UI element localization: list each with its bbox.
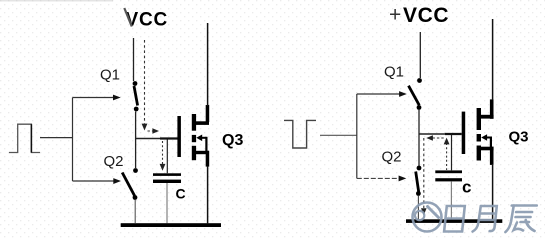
svg-text:Q1: Q1 (384, 64, 404, 81)
svg-text:VCC: VCC (126, 10, 169, 31)
svg-text:Q3: Q3 (509, 129, 529, 146)
svg-text:Q2: Q2 (104, 153, 124, 170)
svg-text:Q2: Q2 (382, 149, 402, 166)
svg-text:VCC: VCC (403, 4, 449, 27)
svg-text:Q3: Q3 (222, 132, 243, 149)
svg-text:C: C (176, 186, 186, 202)
svg-text:c: c (462, 178, 471, 197)
svg-text:+: + (389, 4, 401, 27)
svg-text:Q1: Q1 (100, 67, 120, 84)
